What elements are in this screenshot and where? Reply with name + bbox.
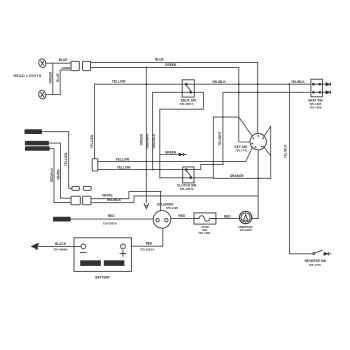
- svg-text:YELLOW: YELLOW: [90, 135, 94, 149]
- wire key bottom vertical: [252, 150, 258, 219]
- engine connector tab 2: [83, 186, 91, 190]
- connector square 1: [71, 196, 80, 205]
- node junctions on yel/blk wire: [145, 83, 147, 85]
- svg-text:GREEN: GREEN: [48, 71, 52, 83]
- wire orange: [213, 177, 270, 179]
- wire green arrow stub: [160, 154, 179, 156]
- wire yellow deck feed: [94, 84, 96, 159]
- svg-text:YEL/BLK: YEL/BLK: [284, 144, 288, 158]
- fuse F1: [194, 213, 216, 224]
- seat switch arrow bottom: [322, 91, 330, 95]
- deck switch wire loop: [153, 92, 204, 178]
- wire bulb bottom horizontal: [46, 94, 60, 96]
- wire key upper-right diagonal: [264, 126, 271, 178]
- svg-text:BLACK: BLACK: [55, 242, 67, 246]
- svg-text:ALTERNATOR: ALTERNATOR: [26, 147, 47, 151]
- wire BLUE long: [91, 62, 258, 133]
- svg-text:ALTERNATOR: ALTERNATOR: [26, 142, 47, 146]
- alternator label box 1: [25, 141, 49, 146]
- svg-text:725-0361A: 725-0361A: [140, 247, 155, 251]
- svg-text:YEL/BLK: YEL/BLK: [212, 80, 226, 84]
- connector yellow block: [92, 159, 98, 171]
- svg-text:ORG/BLK: ORG/BLK: [152, 133, 156, 148]
- svg-text:725-0267A: 725-0267A: [103, 221, 118, 225]
- svg-text:RED: RED: [179, 214, 186, 218]
- connector square 2: [83, 196, 91, 205]
- headlight connector B: [83, 61, 91, 70]
- svg-text:ORANGE: ORANGE: [230, 174, 244, 178]
- svg-text:ENGINE: ENGINE: [26, 130, 38, 134]
- svg-text:ORG/WHT: ORG/WHT: [146, 133, 150, 148]
- svg-text:RED: RED: [108, 214, 115, 218]
- wire solenoid to fuse: [171, 218, 194, 220]
- wire battery red to solenoid: [131, 228, 162, 246]
- wire yel/blk vertical to reverse switch: [289, 84, 313, 254]
- wire engine to connector: [42, 132, 72, 189]
- wire YELLOW2: [98, 165, 223, 170]
- reverse switch S2: [313, 250, 331, 256]
- svg-text:RED/BLK: RED/BLK: [107, 198, 122, 202]
- node junctions on yellow wires: [145, 161, 147, 163]
- ammeter M1: [239, 211, 251, 223]
- svg-text:YELLOW: YELLOW: [64, 153, 68, 167]
- svg-text:YEL/BLK: YEL/BLK: [291, 80, 305, 84]
- wire yel/wht vertical: [223, 92, 311, 164]
- svg-text:YELLOW: YELLOW: [116, 157, 130, 161]
- seat switch SW1: [311, 79, 323, 97]
- wire vertical green headlight: [52, 63, 54, 94]
- wire green short horizontal: [60, 69, 71, 71]
- svg-text:BATTERY: BATTERY: [95, 275, 111, 279]
- wire alternator2 red/blk: [50, 149, 71, 203]
- wire battery black to ground: [37, 245, 81, 247]
- alternator label box 2: [25, 146, 50, 151]
- seat switch arrow top: [322, 82, 330, 86]
- wire fuse to ammeter: [216, 218, 239, 220]
- wire white: [91, 192, 161, 199]
- svg-text:GREEN: GREEN: [165, 151, 177, 155]
- svg-text:RED/BLK: RED/BLK: [50, 167, 54, 182]
- wire green to ground vertical: [145, 67, 147, 203]
- node junctions on seat lower wire: [238, 91, 240, 93]
- svg-text:725-0925: 725-0925: [240, 228, 253, 232]
- svg-text:YEL/WHT: YEL/WHT: [218, 132, 222, 146]
- node green-ground junction: [145, 67, 147, 69]
- wire orange vertical: [212, 117, 214, 178]
- wire vertical blue headlight: [59, 70, 61, 95]
- node orange junction: [257, 177, 259, 179]
- svg-text:YELLOW: YELLOW: [117, 166, 131, 170]
- engine connector tab 1: [72, 186, 80, 190]
- wire YELLOW1 to key switch: [98, 147, 253, 162]
- svg-text:WHITE: WHITE: [102, 193, 112, 197]
- svg-text:725-1428: 725-1428: [309, 105, 322, 109]
- svg-text:725-1741: 725-1741: [235, 148, 248, 152]
- svg-text:725-1426: 725-1426: [166, 206, 179, 210]
- brown label box: [53, 217, 71, 222]
- wire GREEN long: [91, 67, 251, 142]
- svg-text:WHITE: WHITE: [56, 169, 60, 179]
- svg-text:725-1657A: 725-1657A: [179, 102, 194, 106]
- svg-text:725-1381: 725-1381: [198, 231, 211, 235]
- ground arrow: [144, 203, 149, 209]
- svg-text:BLUE: BLUE: [56, 73, 60, 82]
- node junction deck channel: [222, 116, 224, 118]
- svg-text:RED: RED: [146, 241, 153, 245]
- engine label box: [25, 129, 43, 134]
- svg-text:GREEN: GREEN: [139, 133, 143, 145]
- clutch switch wire lower: [160, 177, 214, 179]
- node white junction: [160, 191, 162, 193]
- head light bulb top: [38, 58, 47, 69]
- wire solenoid top vertical: [160, 192, 162, 211]
- svg-text:725-1657A: 725-1657A: [180, 187, 195, 191]
- svg-text:725-0998A: 725-0998A: [53, 248, 68, 252]
- wire yel/blk deck to seat: [95, 83, 311, 85]
- svg-text:RED: RED: [224, 214, 231, 218]
- head light bulb bottom: [38, 89, 47, 100]
- svg-text:BLUE: BLUE: [155, 57, 164, 61]
- deck switch DS1: [182, 80, 194, 97]
- wire brown box to solenoid: [71, 218, 154, 220]
- clutch switch CS1: [183, 167, 194, 183]
- solenoid L1: [153, 211, 171, 229]
- wire red/blk: [91, 196, 258, 203]
- headlight connector A: [71, 61, 79, 70]
- svg-text:HEAD LIGHTS: HEAD LIGHTS: [14, 74, 42, 78]
- wire key lower-right diagonal: [263, 146, 270, 156]
- svg-text:725-1715: 725-1715: [309, 263, 322, 267]
- svg-text:GREEN: GREEN: [165, 63, 177, 67]
- battery B1: [74, 238, 131, 272]
- wire key switch upper-left feed: [213, 117, 252, 136]
- green arrow connector: [179, 153, 184, 157]
- wire alternator1 white: [49, 143, 71, 198]
- svg-text:BROWN: BROWN: [55, 218, 66, 222]
- svg-text:YELLOW: YELLOW: [112, 80, 126, 84]
- ground arrow left: [31, 243, 38, 250]
- svg-text:BLUE: BLUE: [59, 58, 68, 62]
- svg-text:GREEN: GREEN: [62, 66, 72, 70]
- wire bulb top to connector: [46, 62, 71, 64]
- key switch U1: [250, 134, 266, 150]
